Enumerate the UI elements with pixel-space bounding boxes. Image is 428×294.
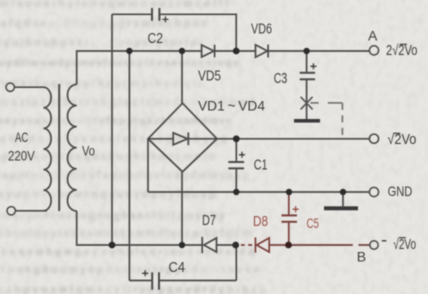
capacitor C3 bbox=[300, 72, 315, 74]
diode VD6 bbox=[256, 45, 268, 57]
junction node D8-C5 bbox=[285, 242, 292, 249]
wire secondary top to main rail bbox=[77, 51, 202, 84]
junction node VD5-VD6-C2 bbox=[233, 48, 240, 55]
wire C4 branch vertical bbox=[128, 51, 130, 281]
wire bridge bottom corner to bottom rail bbox=[181, 172, 183, 245]
rerouting dashed wire from C3 bottom to sqrt2Vo rail bbox=[310, 103, 342, 139]
svg-text:VD1 ~ VD4: VD1 ~ VD4 bbox=[198, 98, 265, 114]
svg-text:C1: C1 bbox=[254, 157, 268, 173]
wire bbox=[16, 210, 47, 212]
transformer T1 primary terminal (bottom) bbox=[7, 207, 15, 215]
bridge rectifier VD1-VD4 bbox=[148, 103, 217, 172]
polarity + of C3 bbox=[310, 63, 316, 69]
svg-text:B: B bbox=[357, 249, 366, 265]
polarity + of C4 bbox=[142, 270, 148, 276]
diode D7 bbox=[201, 237, 203, 253]
junction node at ground symbol bbox=[340, 189, 346, 195]
added diode D8 (red) bbox=[241, 237, 289, 252]
svg-text:D7: D7 bbox=[202, 213, 216, 229]
svg-text:220V: 220V bbox=[8, 148, 35, 164]
svg-text:√2Vo: √2Vo bbox=[387, 132, 416, 148]
ground bar below C3 bbox=[294, 119, 320, 123]
svg-text:C4: C4 bbox=[169, 260, 186, 276]
wire top rail left segment bbox=[112, 13, 151, 15]
polarity + of C2 bbox=[162, 16, 168, 22]
transformer core bbox=[58, 84, 60, 211]
added capacitor C5 (red) bbox=[282, 192, 298, 245]
capacitor C4 branch line bbox=[129, 280, 151, 282]
wire VD5 to VD6 bbox=[215, 50, 256, 52]
capacitor C3 branch bbox=[306, 51, 308, 73]
wire node to terminal B (red) bbox=[289, 244, 370, 246]
junction node D7-C4 bbox=[232, 242, 239, 249]
capacitor C1 branch bbox=[235, 139, 237, 162]
capacitor C4 bbox=[151, 272, 153, 289]
wire bbox=[15, 86, 44, 88]
capacitor C1 bbox=[228, 161, 244, 163]
junction node bridge bottom on rail bbox=[179, 242, 185, 248]
output label minus sqrt2 Vo bbox=[382, 240, 387, 242]
wire bridge left corner down to GND rail bbox=[147, 139, 149, 192]
svg-text:VD5: VD5 bbox=[198, 69, 221, 85]
terminal sqrt2Vo circle bbox=[369, 134, 378, 143]
transformer T1 primary terminal (top) bbox=[6, 83, 14, 91]
svg-text:C3: C3 bbox=[274, 71, 288, 87]
capacitor C2 bbox=[151, 8, 153, 21]
wire VD6 to terminal A bbox=[268, 50, 369, 52]
svg-text:C5: C5 bbox=[307, 216, 320, 231]
wire long vertical from top rail to bottom rail bbox=[111, 14, 113, 245]
terminal B circle bbox=[370, 241, 378, 249]
polarity + of C1 bbox=[239, 152, 245, 158]
junction node at C1 bottom bbox=[233, 189, 239, 195]
junction node on main rail at C4 branch bbox=[126, 48, 132, 54]
svg-text:D8: D8 bbox=[253, 214, 268, 230]
diode VD5 bbox=[202, 45, 214, 57]
svg-text:Vo: Vo bbox=[82, 143, 95, 159]
junction node secondary bottom rail bbox=[109, 242, 116, 249]
svg-text:√2Vo: √2Vo bbox=[393, 237, 416, 253]
wire bridge right corner to terminal (sqrt2 Vo rail) bbox=[217, 138, 369, 140]
deletion cross on C3 ground wire bbox=[301, 97, 313, 110]
svg-text:AC: AC bbox=[15, 129, 28, 145]
junction node at C3 top bbox=[303, 48, 309, 54]
wire top rail right segment down to node bbox=[160, 14, 236, 51]
junction node on main rail at bridge top bbox=[179, 48, 185, 54]
ground symbol on GND rail bbox=[342, 192, 344, 206]
bottom rail from secondary bottom bbox=[77, 211, 202, 245]
junction node at C1 top bbox=[233, 135, 240, 142]
capacitor C4 right vertical bbox=[235, 245, 237, 281]
polarity + of C5 (red) bbox=[293, 206, 299, 212]
terminal A circle bbox=[369, 46, 378, 55]
GND rail bbox=[148, 191, 369, 193]
wire D7 to node bbox=[217, 244, 236, 246]
wire bridge top corner bbox=[181, 51, 183, 103]
svg-text:VD6: VD6 bbox=[251, 21, 272, 37]
svg-text:A: A bbox=[368, 27, 378, 43]
transformer T1 secondary winding Vo bbox=[67, 84, 76, 211]
terminal GND circle bbox=[369, 187, 378, 196]
svg-text:GND: GND bbox=[388, 183, 413, 199]
svg-text:2√2Vo: 2√2Vo bbox=[386, 43, 418, 59]
junction node at C5 top bbox=[286, 189, 292, 195]
svg-text:C2: C2 bbox=[148, 31, 164, 47]
transformer T1 primary winding bbox=[44, 87, 52, 211]
